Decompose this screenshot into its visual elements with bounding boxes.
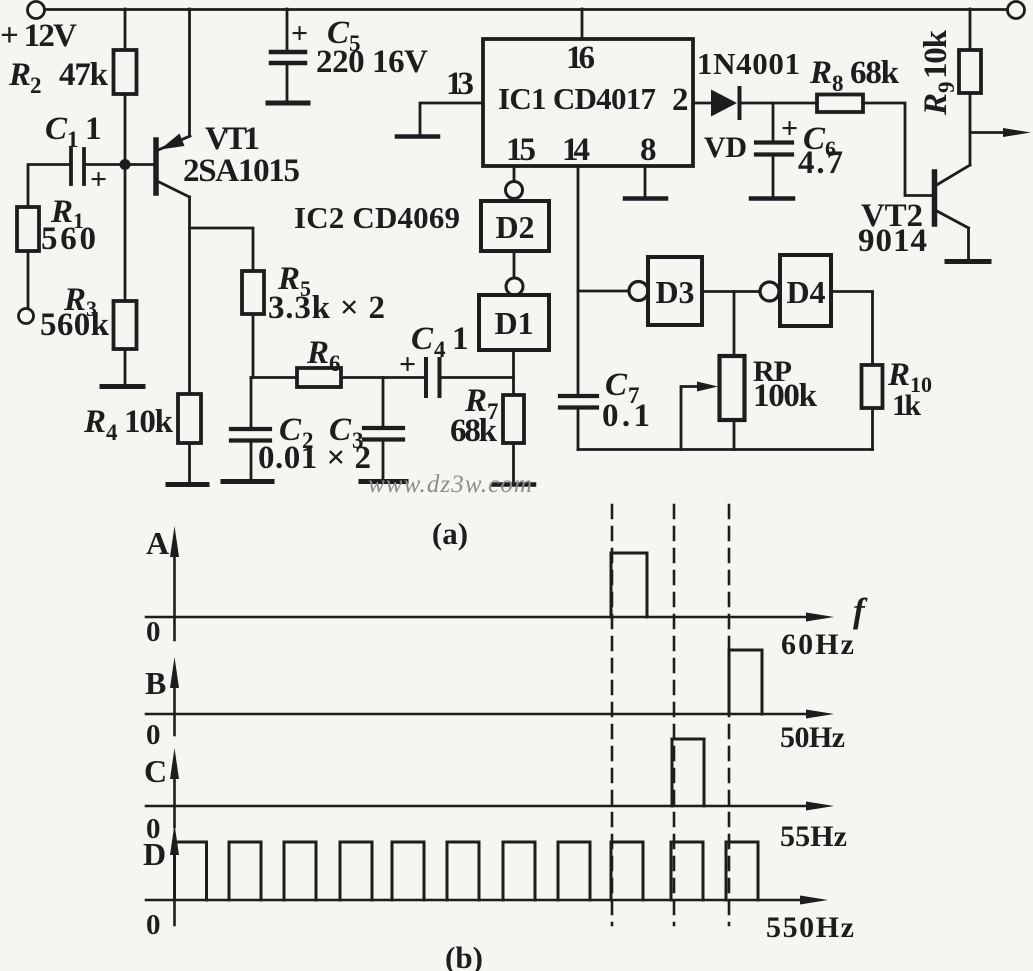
svg-text:R868k: R868k — [809, 55, 900, 96]
svg-text:D: D — [143, 836, 166, 872]
wire D1 output down through node to R7 — [512, 350, 515, 395]
wire RP wiper — [681, 387, 705, 450]
resistor R4 — [178, 394, 201, 443]
svg-text:0: 0 — [146, 719, 161, 751]
svg-text:8: 8 — [640, 132, 657, 168]
wire pin 2 to diode — [693, 102, 712, 105]
svg-text:60Hz: 60Hz — [781, 628, 854, 661]
ground under C5 — [268, 101, 308, 106]
svg-text:(b): (b) — [445, 940, 483, 971]
svg-text:16: 16 — [566, 40, 595, 76]
svg-text:0: 0 — [146, 909, 161, 941]
wire C2 top — [250, 378, 253, 428]
wire C3 top — [382, 378, 385, 427]
wire output line — [970, 131, 1016, 134]
wire axis D vertical — [173, 845, 176, 925]
node dashed marker line 1 — [611, 505, 614, 925]
resistor R10 — [862, 365, 883, 408]
diode VD 1N4001 — [711, 88, 740, 118]
svg-text:100k: 100k — [753, 378, 818, 414]
node arrow axis A up — [170, 526, 179, 557]
wire C2 bottom — [250, 442, 253, 479]
ground under C2 — [223, 479, 272, 484]
svg-text:4.7: 4.7 — [798, 145, 843, 181]
wire pin 13 — [420, 103, 483, 135]
node dashed marker line 3 — [728, 505, 731, 925]
svg-text:IC2 CD4069: IC2 CD4069 — [294, 200, 460, 235]
capacitor C1 — [71, 149, 84, 184]
node arrow axis C up — [170, 748, 179, 779]
svg-text:14: 14 — [562, 132, 590, 168]
svg-text:+ 12V: + 12V — [0, 18, 77, 54]
wire base node to R3 — [124, 169, 127, 301]
ground under VT2 — [947, 259, 989, 264]
svg-text:D2: D2 — [495, 209, 534, 245]
capacitor C2 — [231, 429, 270, 441]
op-amp D3 inverter box — [648, 257, 702, 325]
svg-text:550Hz: 550Hz — [766, 911, 854, 944]
wire R4 bottom — [188, 443, 191, 483]
wire VT1 collector diagonal — [157, 181, 190, 197]
svg-text:560k: 560k — [40, 307, 110, 343]
wire node to R6 — [251, 376, 297, 379]
node RP wiper arrow — [697, 382, 718, 392]
wire axis D baseline — [146, 899, 814, 902]
resistor R1 — [17, 207, 39, 251]
resistor R7 — [503, 395, 524, 443]
node inverter bubble D1 input — [506, 278, 523, 295]
svg-text:D4: D4 — [786, 274, 825, 310]
wire D2 to D1 — [513, 251, 516, 278]
resistor R3 — [114, 301, 137, 349]
potentiometer RP body — [720, 356, 745, 420]
capacitor C6 — [756, 143, 792, 155]
node pulse C — [672, 739, 704, 806]
wire C1 to R1 — [28, 165, 69, 208]
transistor Q VT1 body bar — [153, 140, 159, 193]
capacitor C3 — [364, 428, 403, 440]
svg-text:2: 2 — [672, 82, 689, 118]
svg-text:VT1: VT1 — [205, 121, 260, 157]
node output arrow — [1003, 128, 1031, 137]
op-amp IC1 CD4017 box — [483, 39, 693, 166]
wire R6 to C4 — [341, 376, 426, 379]
wire bottom oscillator rail — [578, 448, 873, 451]
svg-text:1N4001: 1N4001 — [697, 46, 800, 81]
node inverter bubble D4 input — [760, 282, 779, 301]
svg-text:0.01 × 2: 0.01 × 2 — [258, 440, 371, 476]
terminal input bottom — [19, 309, 34, 324]
node pulse train D — [175, 842, 759, 900]
node inverter bubble D2 input — [506, 182, 523, 199]
ground under R4 — [168, 482, 207, 487]
wire C6 top — [772, 103, 775, 141]
wire R2 bottom to base node — [124, 94, 127, 160]
ground under R7 — [493, 482, 534, 487]
transistor Q VT2 body bar — [932, 172, 938, 224]
svg-text:15: 15 — [506, 132, 536, 168]
wire R9 top — [969, 9, 972, 50]
ground under C6 — [751, 196, 793, 201]
svg-text:(a): (a) — [432, 516, 468, 551]
svg-text:A: A — [146, 525, 169, 561]
svg-text:2SA1015: 2SA1015 — [183, 153, 300, 189]
node arrow axis C right — [806, 802, 834, 811]
wire base node to VT1 base — [130, 163, 153, 166]
svg-text:3.3k × 2: 3.3k × 2 — [268, 290, 385, 326]
op-amp D2 inverter box — [481, 201, 549, 251]
node base junction dot — [120, 159, 131, 170]
svg-text:220 16V: 220 16V — [316, 44, 428, 80]
svg-text:+: + — [781, 112, 798, 145]
node inverter bubble D3 input — [629, 282, 648, 301]
svg-text:R910k: R910k — [918, 29, 959, 116]
wire C7 bottom — [577, 408, 580, 450]
wire R2 top — [124, 9, 127, 50]
wire axis A vertical — [173, 545, 176, 640]
svg-text:C: C — [144, 753, 167, 789]
wire top +12V rail — [45, 8, 1007, 11]
node arrow axis B up — [170, 657, 179, 688]
wire D3 output down to RP — [733, 292, 736, 357]
wire C5 top — [286, 9, 289, 50]
wire axis B vertical — [173, 675, 176, 735]
terminal +12V input — [28, 2, 45, 19]
wire axis B baseline — [146, 713, 820, 716]
wire R1 bottom — [27, 251, 30, 308]
wire axis C baseline — [146, 805, 820, 808]
op-amp D4 inverter box — [780, 255, 831, 326]
svg-text:+: + — [90, 163, 107, 196]
svg-text:68k: 68k — [450, 413, 498, 449]
ground pin 8 — [625, 196, 666, 201]
capacitor C7 — [560, 396, 597, 408]
wire C3 bottom — [382, 441, 385, 479]
wire VT2 emitter diagonal — [935, 210, 969, 228]
wire VT1 emitter to rail — [188, 9, 191, 136]
wire axis C vertical — [173, 768, 176, 827]
wire pin 16 stub — [581, 9, 584, 39]
svg-text:D1: D1 — [494, 305, 533, 341]
node arrow axis B right — [806, 710, 834, 719]
svg-text:560: 560 — [41, 221, 96, 257]
ground under R3 — [102, 384, 143, 389]
wire pin14 branch to D3 — [578, 290, 628, 293]
wire VT2 emitter down — [967, 228, 970, 260]
wire C4 to R7 node — [441, 376, 514, 379]
svg-text:R410k: R410k — [83, 404, 174, 445]
wire R3 bottom — [124, 349, 127, 385]
wire axis A baseline — [146, 616, 820, 619]
wire diode to R8 — [740, 102, 817, 105]
wire pin 15 stub — [513, 166, 516, 181]
node VT1 emitter arrow (PNP) — [160, 134, 185, 150]
resistor R2 — [114, 50, 137, 94]
svg-text:1k: 1k — [892, 389, 921, 422]
wire D4 output to R10 — [831, 292, 873, 366]
node dashed marker line 2 — [673, 505, 676, 925]
wire base node to C1 — [86, 163, 120, 166]
wire collector branch to R5 — [190, 228, 254, 271]
svg-text:+: + — [291, 17, 308, 50]
ground under C3 — [361, 479, 406, 484]
svg-text:R247k: R247k — [8, 57, 109, 98]
node pulse B — [729, 650, 762, 714]
node arrow axis D right — [800, 896, 828, 905]
svg-text:50Hz: 50Hz — [780, 721, 845, 754]
wire C5 bottom — [286, 64, 289, 101]
svg-text:IC1 CD4017: IC1 CD4017 — [498, 81, 656, 116]
wire R5 bottom — [252, 314, 255, 378]
capacitor C4 — [426, 359, 440, 396]
wire pin 14 down to C7 — [577, 166, 580, 394]
node arrow axis D up — [170, 824, 179, 855]
wire VT1 emitter diagonal — [157, 136, 190, 151]
svg-text:B: B — [145, 665, 166, 701]
resistor R5 — [242, 271, 264, 314]
wire R9 bottom to collector — [969, 93, 972, 165]
resistor R9 — [959, 50, 981, 93]
terminal top right — [1008, 2, 1025, 19]
svg-text:0.1: 0.1 — [602, 398, 650, 434]
wire C6 bottom — [772, 156, 775, 197]
wire R7 bottom — [512, 443, 515, 483]
svg-text:13: 13 — [446, 66, 474, 102]
svg-text:D3: D3 — [655, 274, 694, 310]
node pulse A — [611, 553, 647, 617]
svg-text:9014: 9014 — [858, 223, 927, 259]
op-amp D1 inverter box — [479, 295, 549, 350]
wire VT1 collector down — [188, 197, 191, 394]
wire R8 to VT2 base — [863, 103, 932, 196]
node arrow axis A right — [806, 613, 834, 622]
ground pin 13 — [397, 134, 438, 139]
svg-text:55Hz: 55Hz — [780, 820, 847, 853]
capacitor C5 — [271, 52, 305, 63]
svg-text:VD: VD — [704, 131, 747, 164]
svg-text:www.dz3w.com: www.dz3w.com — [368, 471, 532, 498]
wire R10 bottom — [871, 408, 874, 450]
wire D3 output to D4 — [702, 290, 759, 293]
resistor R6 — [297, 368, 341, 387]
wire VT2 collector diagonal — [935, 165, 970, 186]
wire pin 8 stub — [644, 166, 647, 197]
svg-text:0: 0 — [146, 616, 161, 648]
resistor R8 — [817, 95, 863, 113]
wire RP bottom — [733, 420, 736, 450]
svg-text:+: + — [399, 348, 416, 381]
